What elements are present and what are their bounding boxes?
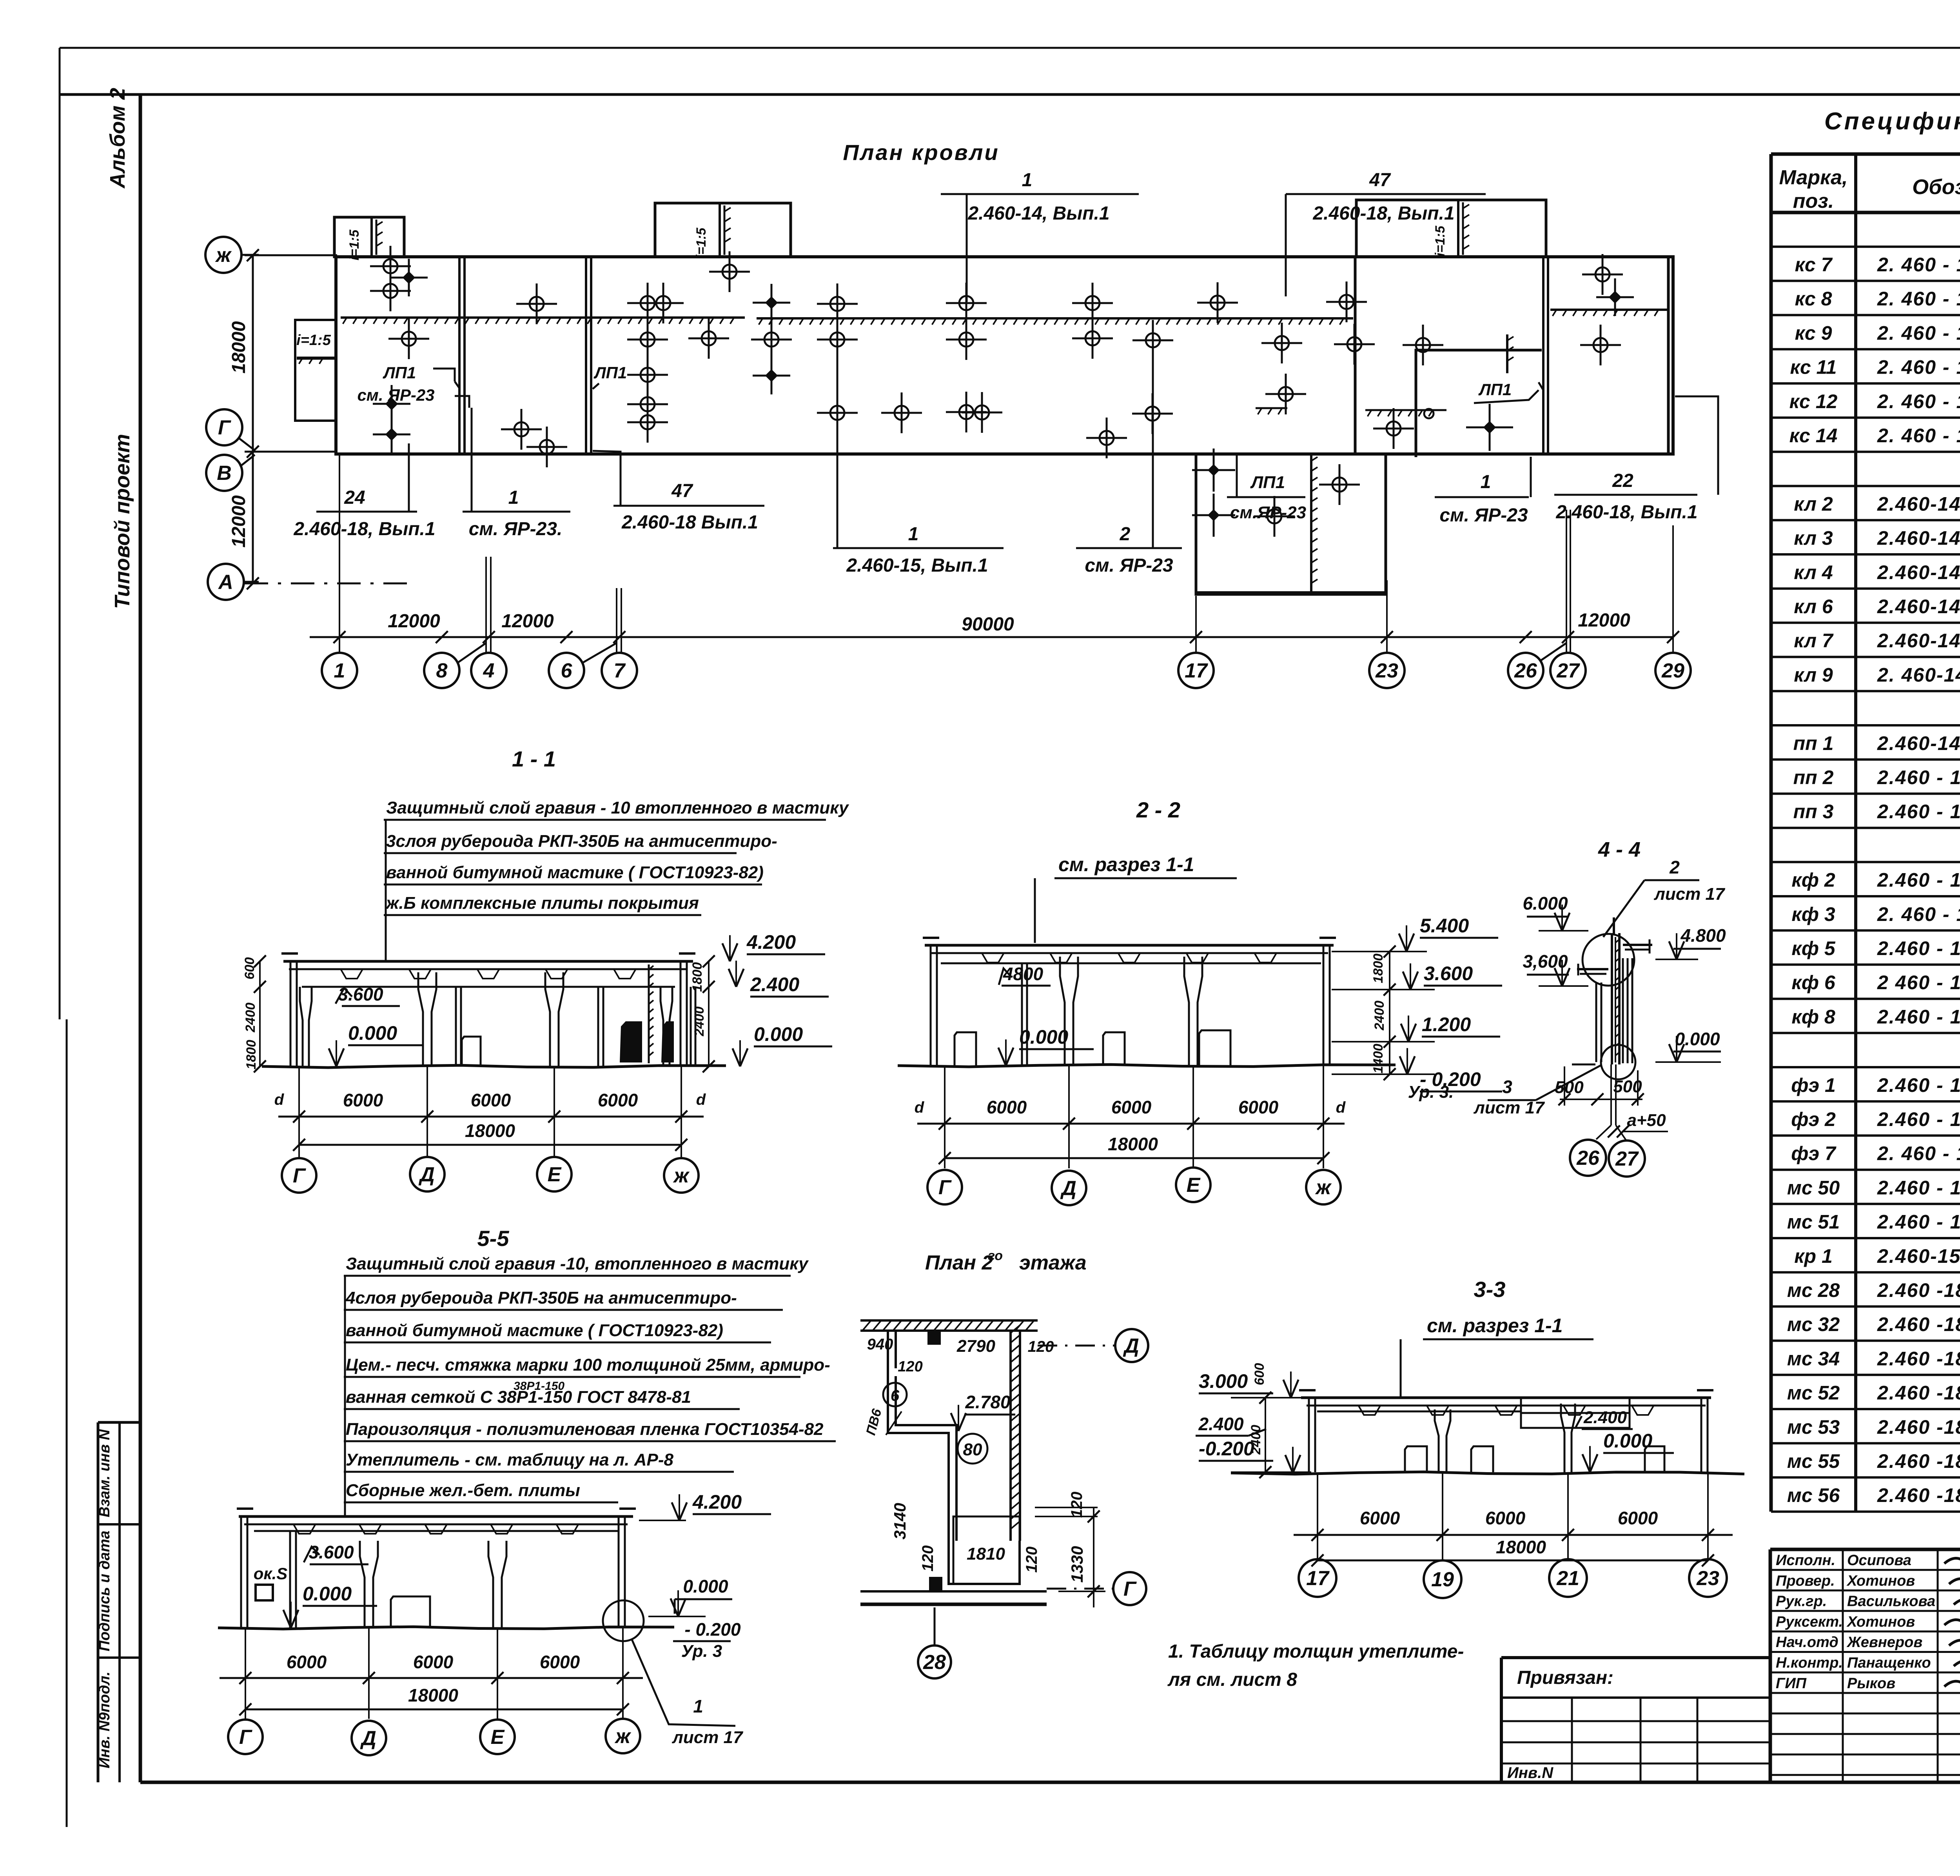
svg-text:Рыков: Рыков <box>1847 1675 1895 1692</box>
svg-text:фэ 7: фэ 7 <box>1791 1142 1837 1164</box>
svg-text:2.460-18, Вып.1: 2.460-18, Вып.1 <box>293 519 435 539</box>
section 4-4 top flange right <box>1623 944 1652 946</box>
svg-text:мс 28: мс 28 <box>1787 1279 1840 1301</box>
svg-text:6000: 6000 <box>540 1652 580 1672</box>
svg-text:2. 460 - 14 вып.1: 2. 460 - 14 вып.1 <box>1877 356 1960 378</box>
svg-text:4.200: 4.200 <box>692 1491 742 1513</box>
axis circle G <box>206 409 242 445</box>
svg-text:4: 4 <box>483 659 495 682</box>
section 4-4 top pin <box>1613 917 1615 935</box>
section 2-2 ceiling <box>941 963 1321 964</box>
section 4-4 ground line <box>1572 1064 1595 1066</box>
svg-text:6000: 6000 <box>1238 1097 1279 1117</box>
svg-text:47: 47 <box>671 481 693 501</box>
svg-text:Д: Д <box>360 1727 376 1750</box>
svg-text:0.000: 0.000 <box>754 1023 803 1045</box>
section 2-2 axis circle G <box>927 1170 962 1204</box>
left vertical dim line <box>252 255 254 583</box>
svg-text:2.460-14 вып.1: 2.460-14 вып.1 <box>1877 561 1960 583</box>
svg-text:d: d <box>1336 1099 1346 1116</box>
section 2-2 ground <box>898 1064 1396 1067</box>
svg-text:кф 5: кф 5 <box>1791 937 1835 959</box>
svg-text:Инв.N: Инв.N <box>1507 1764 1553 1782</box>
vent box 3 top <box>1356 200 1546 257</box>
section 4-4 element verticals right <box>1622 958 1624 1063</box>
section 5-5 ceiling <box>254 1530 619 1532</box>
svg-text:2.460-18, Вып.1: 2.460-18, Вып.1 <box>1312 203 1454 224</box>
annex hatch segments <box>1256 407 1287 409</box>
svg-text:7: 7 <box>614 659 626 682</box>
section 3-3 ceiling <box>1317 1411 1521 1413</box>
svg-text:1.200: 1.200 <box>1422 1013 1471 1035</box>
svg-text:мс 53: мс 53 <box>1787 1416 1840 1438</box>
svg-text:1400: 1400 <box>1371 1044 1386 1073</box>
svg-text:90000: 90000 <box>962 614 1014 635</box>
section 2-2 dim line 6000 <box>917 1123 1345 1125</box>
annex filled vent <box>1484 421 1496 434</box>
svg-text:0.000: 0.000 <box>1675 1029 1720 1049</box>
svg-text:26: 26 <box>1576 1147 1600 1170</box>
svg-text:6000: 6000 <box>287 1652 327 1672</box>
axis circle 1 <box>322 653 357 688</box>
svg-text:Ур. 3.: Ур. 3. <box>1408 1082 1454 1102</box>
section 1-1 axis drop lines <box>298 1066 300 1157</box>
svg-text:3140: 3140 <box>891 1503 909 1539</box>
svg-text:Д: Д <box>1060 1177 1076 1200</box>
svg-text:2: 2 <box>1120 524 1131 545</box>
svg-text:1: 1 <box>693 1696 703 1716</box>
plan2 room bottom <box>949 1541 1020 1584</box>
svg-text:кс 11: кс 11 <box>1790 356 1837 378</box>
section 4-4 element verticals left <box>1595 982 1597 1062</box>
svg-text:ж: ж <box>673 1164 690 1187</box>
svg-text:4слоя рубероида РКП-350Б на: 4слоя рубероида РКП-350Б на антисептиро- <box>345 1288 737 1308</box>
svg-text:Марка,: Марка, <box>1779 166 1848 189</box>
section 5-5 detail circle <box>603 1600 644 1641</box>
section 5-5 door rects <box>391 1596 430 1628</box>
svg-text:3.000: 3.000 <box>1199 1370 1248 1392</box>
roof plan outline <box>336 257 1673 454</box>
svg-text:кл 9: кл 9 <box>1794 664 1833 686</box>
svg-text:кс 14: кс 14 <box>1789 425 1838 447</box>
axis circle 29 <box>1655 653 1691 688</box>
svg-text:пп 2: пп 2 <box>1793 766 1834 788</box>
svg-text:кл 7: кл 7 <box>1794 630 1834 652</box>
svg-text:24: 24 <box>344 487 365 508</box>
svg-text:21: 21 <box>1556 1567 1579 1590</box>
section 3-3 dim line 18000 <box>1318 1560 1708 1562</box>
svg-text:го: го <box>988 1248 1003 1263</box>
svg-text:см. разрез 1-1: см. разрез 1-1 <box>1427 1315 1563 1337</box>
section 4-4 axis circle 26 <box>1570 1140 1606 1176</box>
svg-text:Е: Е <box>1187 1174 1201 1197</box>
svg-text:см. ЯР-23: см. ЯР-23 <box>1085 555 1173 576</box>
svg-text:1. Таблицу толщин утеплите-: 1. Таблицу толщин утеплите- <box>1168 1641 1464 1662</box>
svg-text:2400: 2400 <box>1249 1425 1263 1455</box>
svg-text:3слоя рубероида РКП-350Б на: 3слоя рубероида РКП-350Б на антисептиро- <box>386 832 777 851</box>
svg-text:кс 12: кс 12 <box>1789 390 1838 412</box>
svg-text:Хотинов: Хотинов <box>1846 1573 1915 1589</box>
svg-text:мс 34: мс 34 <box>1787 1348 1840 1369</box>
vent box 1 top <box>334 217 404 257</box>
axis drop lines <box>339 454 340 653</box>
svg-text:4.800: 4.800 <box>1680 925 1726 946</box>
svg-text:лист 17: лист 17 <box>671 1728 744 1747</box>
svg-text:ЛП1: ЛП1 <box>383 363 416 382</box>
section 2-2 inner partition <box>1021 963 1023 1066</box>
svg-text:2.460-15 вып.1: 2.460-15 вып.1 <box>1877 1245 1960 1267</box>
svg-text:а+50: а+50 <box>1627 1111 1666 1130</box>
section 1-1 ground <box>262 1065 726 1068</box>
svg-text:2.460-14 вып.1: 2.460-14 вып.1 <box>1877 732 1960 754</box>
svg-text:3: 3 <box>1502 1077 1512 1097</box>
svg-text:6: 6 <box>891 1387 900 1404</box>
svg-text:лист 17: лист 17 <box>1473 1098 1545 1117</box>
svg-text:d: d <box>274 1091 285 1108</box>
svg-text:2.460 - 14 вып.1: 2.460 - 14 вып.1 <box>1877 937 1960 959</box>
svg-text:2.460-14 вып.1: 2.460-14 вып.1 <box>1877 493 1960 515</box>
section 1-1 note leader <box>385 820 387 961</box>
axis circle J <box>205 237 241 273</box>
svg-text:Руксект.: Руксект. <box>1776 1614 1843 1630</box>
svg-text:0.000: 0.000 <box>1603 1430 1652 1452</box>
svg-text:2. 460 - 14 вып.1: 2. 460 - 14 вып.1 <box>1877 390 1960 412</box>
section 5-5 axis circle J <box>606 1719 640 1753</box>
plan2 axis circle G <box>1113 1572 1146 1605</box>
svg-text:0.000: 0.000 <box>303 1583 352 1605</box>
section 5-5 dim line 6000 <box>220 1677 643 1679</box>
svg-text:Рук.гр.: Рук.гр. <box>1776 1593 1827 1610</box>
svg-text:2.460-18 Вып.1: 2.460-18 Вып.1 <box>621 512 758 533</box>
section 1-1 door rects <box>462 1037 481 1066</box>
svg-text:2.460 - 14 вып.1: 2.460 - 14 вып.1 <box>1877 1006 1960 1028</box>
svg-text:2.460-14, Вып.1: 2.460-14, Вып.1 <box>967 203 1109 224</box>
svg-text:2.780: 2.780 <box>965 1392 1011 1412</box>
svg-text:1: 1 <box>508 487 519 508</box>
svg-text:12000: 12000 <box>501 611 554 632</box>
axis J dash line <box>245 254 337 256</box>
svg-text:120: 120 <box>1068 1492 1085 1518</box>
plan2 top wall hatched <box>860 1319 1038 1322</box>
section 3-3 columns <box>1435 1409 1439 1472</box>
title block signatures scribbles <box>1944 1556 1960 1566</box>
section 1-1 dim line 18000 <box>299 1144 681 1146</box>
svg-text:i=1:5: i=1:5 <box>1433 225 1448 257</box>
svg-text:1: 1 <box>908 524 919 545</box>
plan vent symbols middle <box>402 332 416 346</box>
svg-text:Привязан:: Привязан: <box>1517 1667 1613 1688</box>
svg-text:пп 1: пп 1 <box>1793 732 1834 754</box>
svg-text:6000: 6000 <box>1485 1508 1526 1528</box>
svg-text:2.460 - 14 вып.1: 2.460 - 14 вып.1 <box>1877 869 1960 891</box>
outer sheet border <box>60 47 1960 49</box>
svg-text:1: 1 <box>1481 472 1491 492</box>
section 2-2 axis drop lines <box>944 1066 946 1168</box>
section 5-5 note leader <box>344 1276 346 1516</box>
svg-text:Типовой проект: Типовой проект <box>111 434 134 609</box>
svg-text:0.000: 0.000 <box>1019 1026 1068 1048</box>
section 1-1 roof <box>283 960 693 963</box>
plan2 filled square top <box>927 1331 941 1345</box>
svg-text:120: 120 <box>898 1358 922 1375</box>
svg-text:12000: 12000 <box>388 611 440 632</box>
svg-text:8: 8 <box>436 659 448 682</box>
svg-text:ЛП1: ЛП1 <box>1250 473 1285 492</box>
section 2-2 walls <box>930 945 932 1066</box>
svg-text:2.400: 2.400 <box>1198 1414 1244 1434</box>
section 1-1 hatched column <box>648 964 650 1063</box>
svg-text:6000: 6000 <box>987 1097 1027 1117</box>
svg-text:120: 120 <box>1023 1547 1040 1573</box>
plan diamond vents top <box>403 271 416 284</box>
section 1-1 axis circle G <box>282 1158 316 1193</box>
parapet hatch right bay <box>1550 309 1668 311</box>
svg-text:2 - 2: 2 - 2 <box>1136 797 1180 822</box>
lower annex outline <box>1196 454 1386 594</box>
svg-text:ЛП1: ЛП1 <box>1478 380 1512 399</box>
svg-text:Провер.: Провер. <box>1776 1573 1835 1589</box>
svg-text:см. ЯР-23: см. ЯР-23 <box>357 386 434 404</box>
svg-text:Е: Е <box>491 1726 505 1749</box>
title block outline <box>1770 1548 1960 1551</box>
svg-text:2.400: 2.400 <box>1583 1408 1627 1427</box>
svg-text:23: 23 <box>1375 659 1398 682</box>
section 5-5 inner partition <box>289 1531 291 1628</box>
svg-text:- 0.200: - 0.200 <box>684 1619 741 1640</box>
axis circle 4 <box>471 653 506 688</box>
svg-text:27: 27 <box>1615 1148 1639 1170</box>
section 3-3 level lines left <box>1231 1397 1305 1398</box>
lower annex vents <box>1208 464 1220 476</box>
svg-text:2.460 -18 вып.3: 2.460 -18 вып.3 <box>1877 1484 1960 1506</box>
svg-text:Пароизоляция - полиэтиленовая: Пароизоляция - полиэтиленовая пленка ГОС… <box>346 1420 824 1439</box>
left protrusion <box>295 320 336 421</box>
svg-text:i=1:5: i=1:5 <box>347 229 362 261</box>
svg-text:2: 2 <box>1669 857 1680 877</box>
svg-text:этажа: этажа <box>1019 1251 1087 1274</box>
svg-text:2400: 2400 <box>692 1006 707 1037</box>
section 1-1 walls <box>290 961 292 1066</box>
svg-text:ж: ж <box>215 244 232 267</box>
svg-text:2.460 -18 вып.3: 2.460 -18 вып.3 <box>1877 1313 1960 1335</box>
margin stamp boxes <box>97 1422 100 1782</box>
section 5-5 ground <box>218 1627 674 1629</box>
svg-text:пп 3: пп 3 <box>1793 801 1834 823</box>
section 2-2 roof <box>925 944 1334 947</box>
svg-text:Подпись и дата: Подпись и дата <box>96 1531 113 1651</box>
section 4-4 detail circle top <box>1583 934 1634 986</box>
svg-text:i=1:5: i=1:5 <box>296 332 331 349</box>
svg-text:d: d <box>915 1099 925 1116</box>
annex hatch vertical <box>1506 334 1508 373</box>
section 3-3 walls <box>1308 1398 1310 1472</box>
svg-text:2.460-14 вып.1: 2.460-14 вып.1 <box>1877 596 1960 617</box>
svg-text:1: 1 <box>334 659 345 682</box>
svg-text:22: 22 <box>1612 470 1633 491</box>
svg-text:мс 55: мс 55 <box>1787 1450 1840 1472</box>
svg-text:5-5: 5-5 <box>477 1226 510 1251</box>
svg-text:38Р1-150: 38Р1-150 <box>514 1380 564 1393</box>
annex room right <box>1416 350 1542 457</box>
svg-text:ванной битумной мастике ( Г: ванной битумной мастике ( ГОСТ10923-82) <box>346 1321 723 1340</box>
svg-text:Жевнеров: Жевнеров <box>1846 1634 1922 1651</box>
svg-text:Утеплитель - см. таблицу на: Утеплитель - см. таблицу на л. АР-8 <box>346 1450 673 1469</box>
section 1-1 axis circle D <box>410 1157 445 1191</box>
section 2-2 columns <box>1060 957 1065 1066</box>
svg-text:2.460-14 вып.1: 2.460-14 вып.1 <box>1877 630 1960 652</box>
plan2 bottom corridor lines <box>860 1590 1047 1593</box>
svg-text:80: 80 <box>963 1440 982 1459</box>
svg-text:2400: 2400 <box>1372 1001 1387 1031</box>
section 5-5 axis drop lines <box>245 1628 246 1719</box>
svg-text:Исполн.: Исполн. <box>1776 1552 1835 1569</box>
svg-text:План кровли: План кровли <box>843 140 999 165</box>
svg-text:27: 27 <box>1556 659 1580 682</box>
privyazan grid <box>1501 1720 1770 1722</box>
roof plan right edge double <box>1667 257 1670 454</box>
plan vent symbols row top <box>383 259 397 273</box>
svg-text:Панащенко: Панащенко <box>1847 1655 1931 1671</box>
svg-text:-0.200: -0.200 <box>1199 1438 1254 1460</box>
svg-text:см.ЯР-23: см.ЯР-23 <box>1230 503 1306 522</box>
svg-text:Н.контр.: Н.контр. <box>1776 1655 1843 1671</box>
svg-text:600: 600 <box>242 957 257 980</box>
svg-text:1: 1 <box>1022 170 1033 191</box>
section 4-4 left flange <box>1577 968 1608 970</box>
svg-text:поз.: поз. <box>1793 190 1834 212</box>
svg-text:кс 9: кс 9 <box>1795 322 1832 344</box>
svg-text:ок.S: ок.S <box>254 1564 288 1583</box>
lower annex divider hatch <box>1310 455 1312 593</box>
axis circle 6 <box>549 653 584 688</box>
svg-text:ж: ж <box>1315 1176 1332 1199</box>
annex small circle <box>1424 409 1434 418</box>
svg-text:см. разрез 1-1: см. разрез 1-1 <box>1058 854 1194 875</box>
svg-text:23: 23 <box>1696 1567 1719 1590</box>
axis G line <box>245 451 337 453</box>
svg-text:мс 56: мс 56 <box>1787 1484 1840 1506</box>
roof plan wall axis 4 <box>458 257 461 454</box>
svg-text:2.460 - 18 вып.3: 2.460 - 18 вып.3 <box>1877 1211 1960 1233</box>
svg-text:ЛП1: ЛП1 <box>593 363 627 382</box>
axis circle A <box>208 564 244 600</box>
svg-text:Альбом 2: Альбом 2 <box>106 88 129 189</box>
svg-text:2.460 -18 вып.3: 2.460 -18 вып.3 <box>1877 1450 1960 1472</box>
section 2-2 dim line 18000 <box>945 1157 1323 1159</box>
section 4-4 axis leader lines <box>1610 1064 1612 1125</box>
svg-text:600: 600 <box>1252 1363 1267 1386</box>
svg-text:1800: 1800 <box>244 1040 259 1070</box>
section 4-4 element wall hatch <box>1611 933 1613 1064</box>
svg-text:Нач.отд: Нач.отд <box>1776 1634 1838 1651</box>
svg-text:кф 6: кф 6 <box>1791 972 1835 993</box>
svg-text:4 - 4: 4 - 4 <box>1598 838 1641 861</box>
bracket marks on walls <box>455 381 459 388</box>
svg-text:Г: Г <box>293 1164 306 1187</box>
svg-text:2400: 2400 <box>243 1002 258 1033</box>
parapet hatch line <box>341 316 745 319</box>
svg-text:2.460 -18 вып.3: 2.460 -18 вып.3 <box>1877 1382 1960 1404</box>
section 1-1 dim line 6000 <box>278 1116 704 1118</box>
plan2 filled square bottom <box>929 1577 942 1590</box>
svg-text:2.460 - 14 вып.1: 2.460 - 14 вып.1 <box>1877 1074 1960 1096</box>
section 3-3 roof <box>1301 1397 1711 1399</box>
plan2 axis circle 28 <box>918 1645 951 1678</box>
top band line <box>60 93 1960 96</box>
svg-text:см. ЯР-23.: см. ЯР-23. <box>469 519 563 539</box>
svg-text:3-3: 3-3 <box>1474 1277 1506 1302</box>
axis circle 7 <box>602 653 637 688</box>
svg-text:2.460 - 14 вып.1: 2.460 - 14 вып.1 <box>1877 801 1960 823</box>
svg-text:мс 52: мс 52 <box>1787 1382 1840 1404</box>
svg-text:кл 6: кл 6 <box>1794 596 1833 617</box>
svg-text:2.460 -18 вып.3: 2.460 -18 вып.3 <box>1877 1279 1960 1301</box>
title block signature rows <box>1770 1569 1960 1571</box>
section 3-3 axis drop lines <box>1317 1473 1318 1559</box>
svg-text:2. 460 - 14 вып.1: 2. 460 - 14 вып.1 <box>1877 1142 1960 1164</box>
svg-text:Д: Д <box>418 1163 435 1186</box>
svg-text:2.460 -18 вып.3: 2.460 -18 вып.3 <box>1877 1348 1960 1369</box>
svg-text:ГИП: ГИП <box>1776 1675 1807 1692</box>
svg-text:Г: Г <box>938 1176 952 1199</box>
svg-text:Обозначение: Обозначение <box>1912 175 1960 199</box>
section 3-3 axis circle 21 <box>1549 1559 1587 1597</box>
svg-text:2. 460 - 14 вып.1: 2. 460 - 14 вып.1 <box>1877 254 1960 276</box>
section 3-3 axis circle 17 <box>1299 1559 1336 1597</box>
section 5-5 walls <box>240 1516 242 1628</box>
svg-text:2.400: 2.400 <box>750 973 799 995</box>
vent box 2 top <box>655 203 791 257</box>
svg-text:мс 51: мс 51 <box>1787 1211 1840 1233</box>
svg-text:ванной битумной мастике ( ГО: ванной битумной мастике ( ГОСТ10923-82) <box>386 863 764 882</box>
section 5-5 axis circle E <box>480 1720 515 1754</box>
svg-text:кс 7: кс 7 <box>1795 254 1833 276</box>
svg-text:кл 2: кл 2 <box>1794 493 1833 515</box>
svg-text:ж: ж <box>614 1725 632 1748</box>
axis A line stub <box>245 583 412 585</box>
svg-text:3,600: 3,600 <box>1523 951 1568 972</box>
svg-text:6000: 6000 <box>598 1090 638 1110</box>
svg-text:6000: 6000 <box>1111 1097 1152 1117</box>
svg-text:120: 120 <box>1028 1338 1054 1355</box>
svg-text:фэ 2: фэ 2 <box>1791 1108 1836 1130</box>
section 2-2 axis circle J <box>1306 1170 1341 1204</box>
svg-text:Инв. N9подл.: Инв. N9подл. <box>96 1671 113 1768</box>
section 3-3 dim line 6000 <box>1294 1534 1733 1536</box>
roof plan wall axis 26-27 <box>1542 257 1544 454</box>
svg-text:6: 6 <box>561 659 573 682</box>
svg-text:6000: 6000 <box>343 1090 383 1110</box>
svg-text:Василькова: Василькова <box>1847 1593 1935 1610</box>
svg-text:d: d <box>696 1091 706 1108</box>
svg-text:12000: 12000 <box>1578 610 1630 631</box>
inner frame <box>139 94 142 1782</box>
svg-text:2790: 2790 <box>956 1337 995 1356</box>
svg-text:29: 29 <box>1661 659 1684 682</box>
spec table grid <box>1771 153 1960 156</box>
svg-text:кф 8: кф 8 <box>1791 1006 1835 1028</box>
section 2-2 axis circle E <box>1176 1168 1210 1202</box>
section 5-5 leader 1 list 17 <box>632 1640 735 1726</box>
svg-text:6.000: 6.000 <box>1523 893 1568 913</box>
svg-text:6000: 6000 <box>1618 1508 1658 1528</box>
section 3-3 note leader <box>1400 1339 1402 1397</box>
svg-text:ж.Б комплексные плиты покры: ж.Б комплексные плиты покрытия <box>385 894 699 913</box>
svg-text:5.400: 5.400 <box>1420 915 1469 937</box>
section 2-2 door rects <box>955 1032 976 1066</box>
svg-text:28: 28 <box>923 1651 946 1674</box>
section 3-3 door rects <box>1405 1446 1427 1472</box>
